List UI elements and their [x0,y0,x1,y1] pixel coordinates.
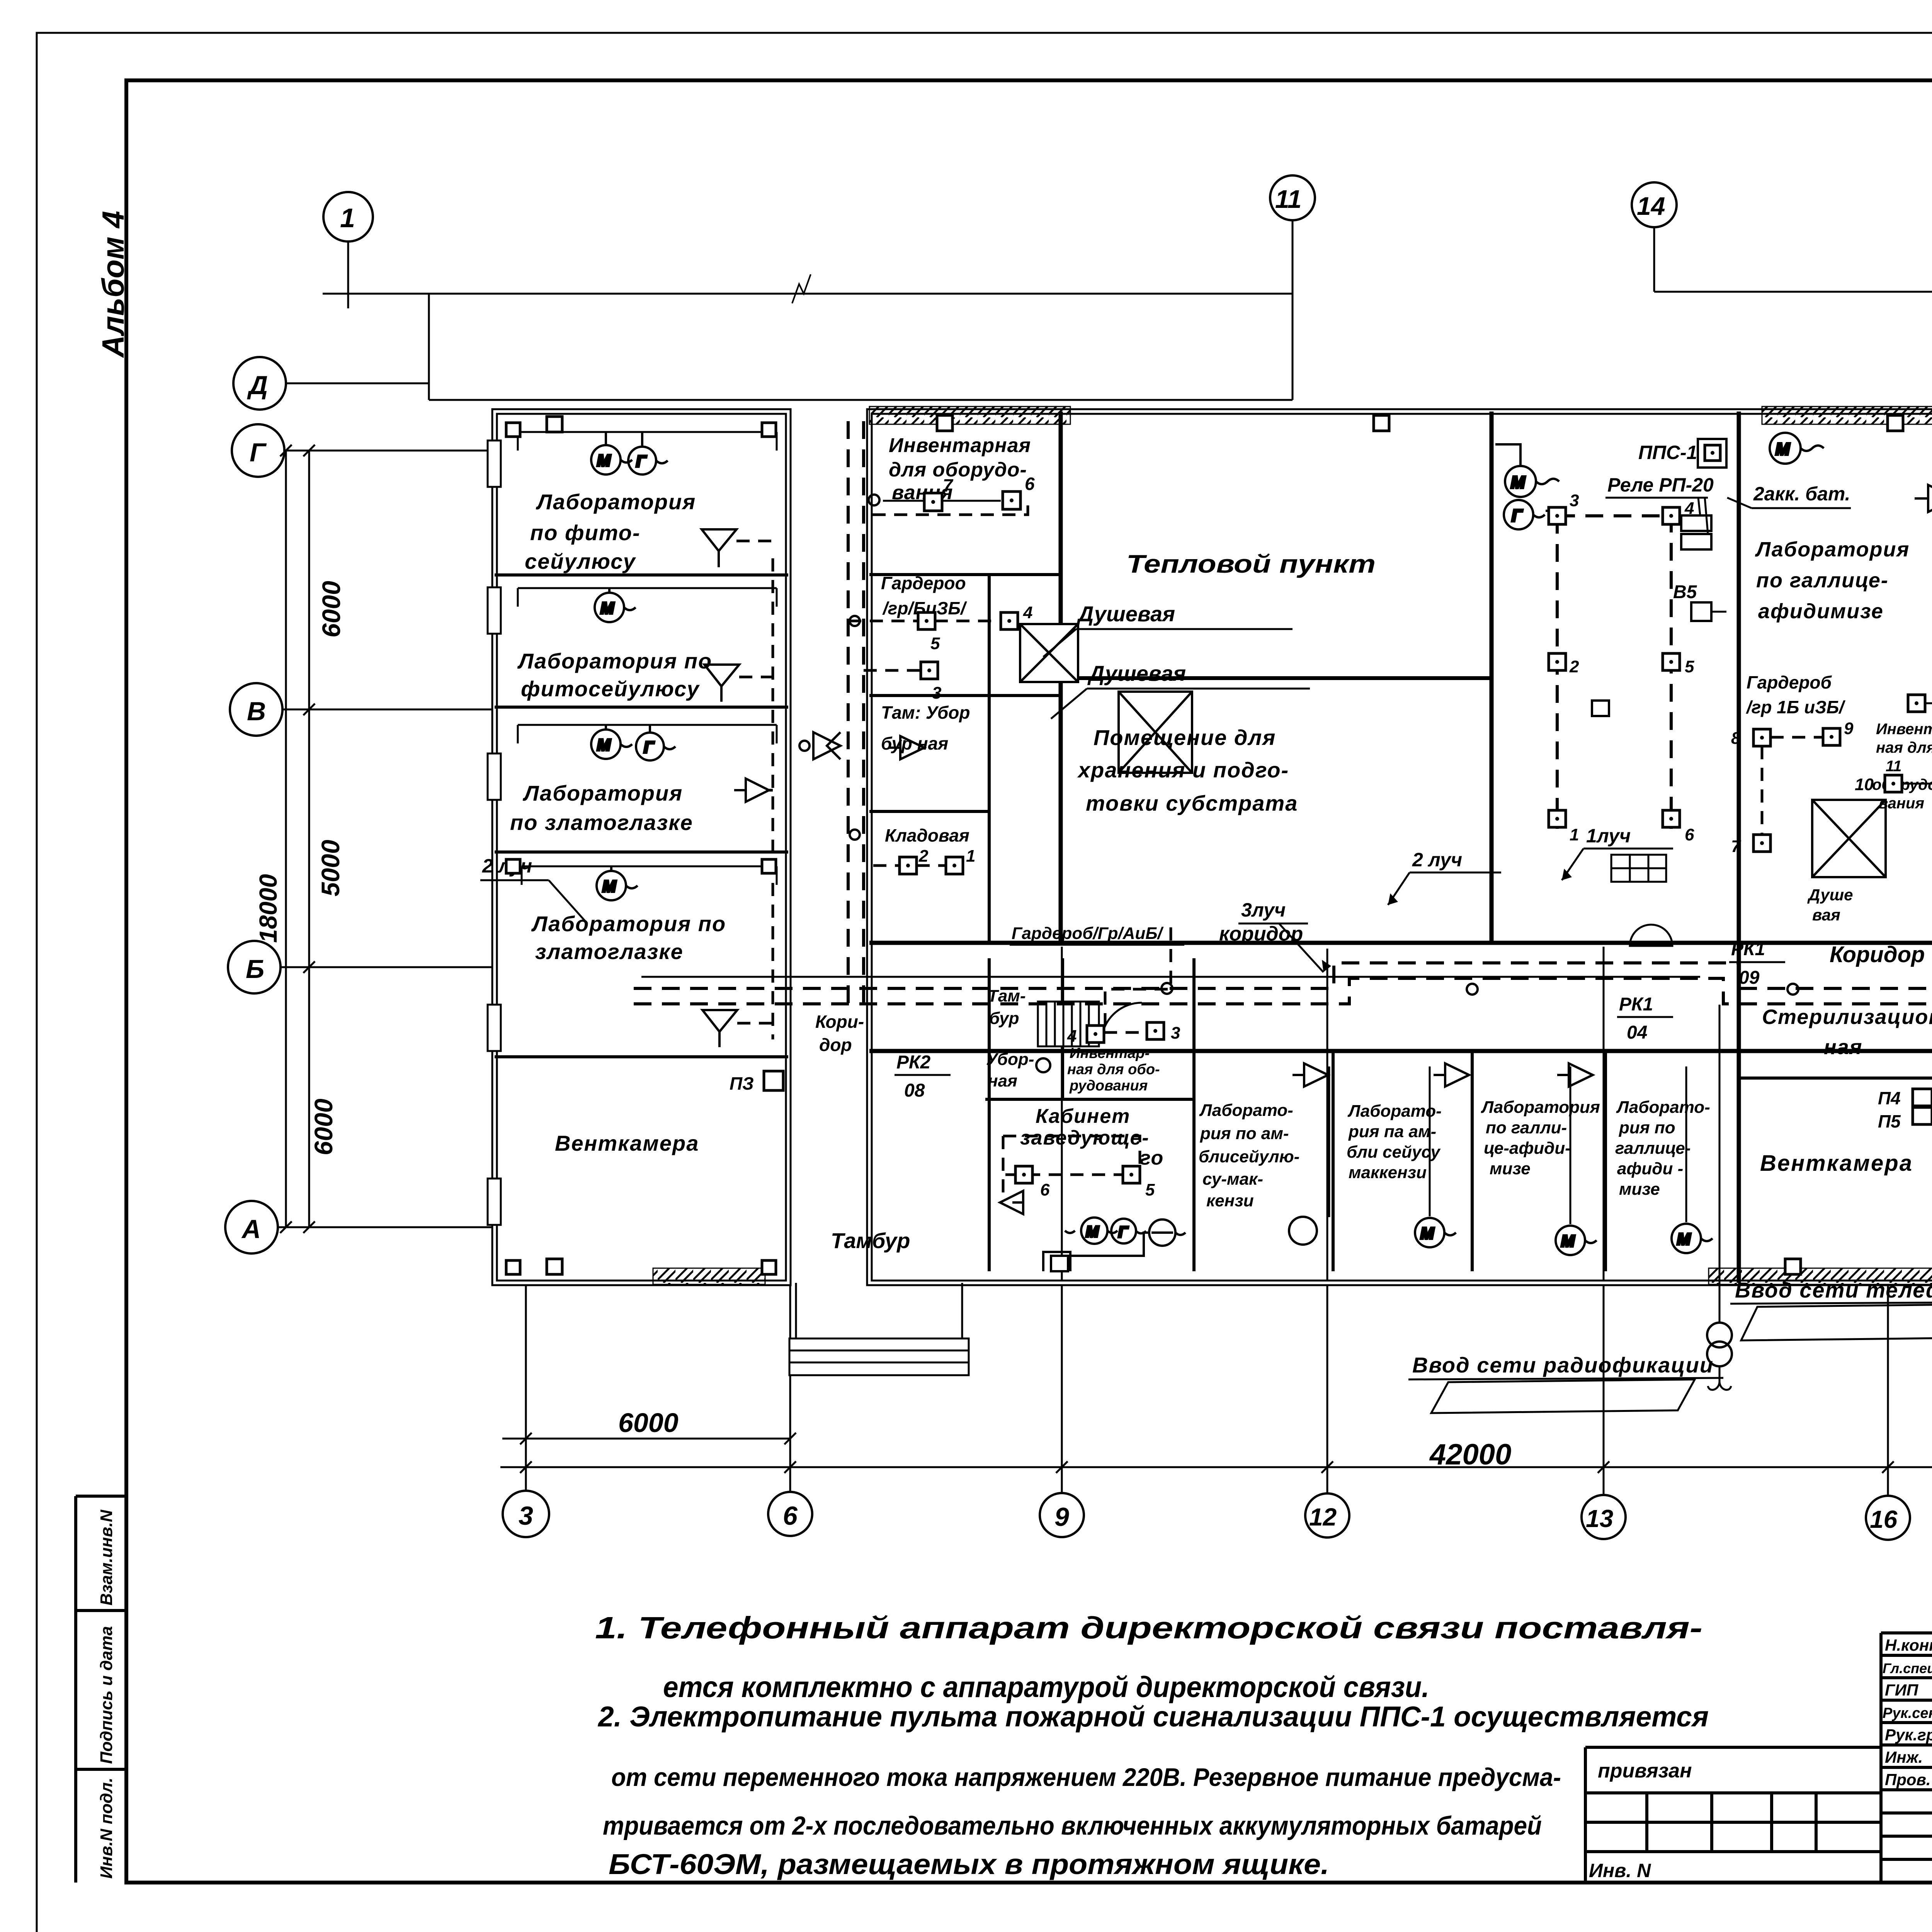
bottom axis droppers [526,947,1932,1499]
detectors P4 P5 [1878,1088,1932,1131]
svg-text:М: М [1511,473,1526,492]
glass symbol lab1 [702,529,736,567]
axis leader lines top [323,220,1932,400]
detector kabinet 6 [1015,1166,1050,1199]
svg-text:2акк. бат.: 2акк. бат. [1753,483,1850,505]
svg-text:М: М [1086,1223,1099,1240]
svg-text:Душевая: Душевая [1087,661,1186,685]
privyazan table [1585,1747,1881,1883]
svg-text:бур: бур [989,1009,1019,1028]
svg-text:Лаборатория: Лаборатория [522,781,683,805]
svg-text:по галли-: по галли- [1486,1118,1567,1137]
svg-text:Венткамера: Венткамера [1760,1151,1913,1176]
glass symbol lab2 [704,665,739,702]
axis circle 11 [1270,175,1315,220]
svg-text:1: 1 [340,203,355,233]
telefonization entry line [1719,1005,1721,1323]
svg-text:мизе: мизе [1619,1180,1660,1199]
speakers labs row [1293,1063,1593,1087]
bottom dimension line 42000 [500,1461,1932,1473]
svg-text:фитосейулюсу: фитосейулюсу [521,677,700,701]
ceiling line lab zlato1 [518,725,777,743]
riser left gap 1 [847,421,850,1004]
room lab gallitse top [1755,538,1910,623]
svg-text:сейулюсу: сейулюсу [525,549,636,573]
window hatches top wall [869,406,1932,424]
svg-text:Ввод сети радиофикации: Ввод сети радиофикации [1412,1353,1714,1377]
svg-text:коридор: коридор [1219,923,1303,945]
small box teplovoy center [1592,701,1609,716]
axis circle 9 [1040,1493,1084,1537]
window hatches bottom wall [653,1268,1932,1284]
margin stamp column [76,1496,126,1883]
ceiling line lab fito2 [518,588,777,607]
svg-text:М: М [1677,1230,1691,1248]
svg-text:Гл.спец.отд: Гл.спец.отд [1883,1660,1932,1676]
svg-text:по златоглазке: по златоглазке [510,810,693,835]
motor M loop room [1495,444,1559,497]
axis circle Д [233,357,286,410]
small boxes top wall main [547,415,1932,1274]
svg-text:Г: Г [1512,506,1523,525]
svg-text:5: 5 [1145,1180,1155,1199]
svg-text:афидимизе: афидимизе [1758,600,1884,623]
motor M lab zlato2 [597,866,638,900]
label garderob corridor [1010,924,1184,945]
svg-text:Душе: Душе [1807,886,1853,904]
sub dimension 6000 left [502,1433,796,1444]
svg-text:М: М [600,599,614,617]
svg-text:/гр 1Б иЗБ/: /гр 1Б иЗБ/ [1746,697,1845,717]
svg-text:Д: Д [247,371,268,400]
svg-text:5000: 5000 [316,840,345,896]
svg-text:тривается от 2-х последовател: тривается от 2-х последовательно включен… [603,1811,1542,1840]
axis circle 13 [1582,1495,1626,1539]
svg-text:Тамбур: Тамбур [831,1228,910,1253]
dashed between mid dets [1104,927,1171,1032]
svg-text:9: 9 [1054,1502,1069,1532]
svg-text:Коридор: Коридор [1830,942,1925,967]
svg-text:1: 1 [966,847,975,866]
svg-text:1. Телефонный аппарат директ: 1. Телефонный аппарат директорской связи… [595,1611,1702,1645]
svg-text:Альбом 4: Альбом 4 [96,211,130,358]
ceiling line lab zlato2 [522,866,777,885]
wall contact squares left wing [506,423,776,1274]
svg-text:Инв.N подл.: Инв.N подл. [97,1777,116,1879]
svg-text:бли сейусу: бли сейусу [1347,1143,1441,1162]
svg-text:Ввод сети телефонизации: Ввод сети телефонизации [1735,1278,1932,1302]
svg-text:6000: 6000 [309,1099,338,1155]
room inventar right [1872,721,1932,812]
svg-text:Лаборато-: Лаборато- [1347,1102,1442,1121]
svg-text:5: 5 [1685,657,1694,676]
svg-text:42000: 42000 [1429,1438,1511,1471]
label RK1/09 [1729,939,1785,988]
svg-text:3: 3 [1570,491,1579,510]
svg-text:Кладовая: Кладовая [885,825,969,845]
svg-text:Инвентар-: Инвентар- [1070,1045,1150,1061]
svg-text:для оборудо-: для оборудо- [889,459,1027,481]
svg-text:М: М [1561,1232,1575,1250]
svg-text:08: 08 [904,1080,925,1101]
windows left outer wall [488,440,501,1225]
svg-text:10: 10 [1855,775,1874,794]
svg-text:Подпись и дата: Подпись и дата [97,1626,116,1764]
svg-text:ная: ная [1824,1036,1862,1059]
room inventarnaya top [889,434,1031,504]
loop detector 2 [1549,653,1579,676]
svg-text:Лаборатория: Лаборатория [1481,1098,1600,1117]
svg-text:Лаборатория: Лаборатория [1755,538,1910,561]
svg-text:галлице-: галлице- [1615,1139,1690,1158]
svg-text:Лаборатория по: Лаборатория по [531,912,726,936]
loop detector 1 [1549,810,1579,844]
svg-text:Взам.инв.N: Взам.инв.N [97,1509,116,1605]
room lab ambl 1 [1199,1101,1299,1210]
parallelogram radiofication [1431,1379,1695,1413]
svg-text:РК1: РК1 [1619,994,1653,1015]
axis circle Б [228,941,281,993]
svg-text:14: 14 [1637,192,1665,220]
svg-text:Гардероб: Гардероб [1747,672,1832,692]
svg-text:ная для: ная для [1876,739,1932,756]
axis circle В [230,683,282,736]
motor G lab zlato1 [636,725,675,760]
svg-text:1: 1 [1570,825,1579,844]
svg-text:маккензи: маккензи [1349,1163,1427,1182]
kabinet speaker [1000,1191,1023,1214]
branch inventarnaya top [883,500,1001,502]
svg-text:11: 11 [1886,758,1902,775]
label 1 luch [1562,825,1673,880]
motor G lab fito1 [628,432,668,474]
room lab gall 2 [1615,1098,1710,1199]
axis leader lines left [278,383,495,1227]
left dimension chains [280,445,315,1233]
loop detector 6 [1663,810,1694,844]
svg-text:Н.контр.: Н.контр. [1885,1636,1932,1654]
svg-text:Кори-: Кори- [815,1012,864,1032]
svg-text:Убор-: Убор- [986,1050,1034,1069]
dashed between 8 and 9 [1762,737,1823,835]
svg-text:2. Электропитание пульта пожа: 2. Электропитание пульта пожарной сигнал… [597,1701,1709,1733]
motor M lab zlato1 [591,725,632,759]
svg-text:А: А [241,1214,261,1244]
svg-text:товки субстрата: товки субстрата [1086,791,1298,815]
svg-text:12: 12 [1309,1503,1337,1531]
svg-text:РК1: РК1 [1731,939,1765,959]
svg-text:рия по: рия по [1619,1118,1675,1137]
entrance porch left [789,1283,969,1375]
svg-text:Инвентар-: Инвентар- [1876,721,1932,738]
axis circle 14 [1632,182,1677,227]
wc circle ubor mid [1036,1058,1050,1072]
svg-text:М: М [1420,1224,1434,1242]
svg-text:привязан: привязан [1598,1760,1692,1782]
svg-text:8: 8 [1731,729,1741,748]
label RK2/08 [895,1052,951,1101]
svg-text:2: 2 [1569,657,1579,676]
svg-text:ется комплектно с аппаратур: ется комплектно с аппаратурой директорск… [663,1671,1429,1704]
svg-text:афиди -: афиди - [1617,1159,1683,1178]
ceiling line lab fito1 [518,432,777,451]
svg-text:Инж.: Инж. [1885,1748,1923,1766]
detector 11 inventar right [1908,695,1932,723]
svg-text:РК2: РК2 [896,1052,931,1073]
detector P3 [730,1071,783,1094]
detector 4 garderob [1001,603,1032,629]
detector 2 kladovaya main [900,847,929,874]
motor M lab fito2 [595,588,636,622]
axis circle А [225,1201,278,1253]
svg-text:Г: Г [1118,1224,1129,1241]
motor G loop room [1504,500,1549,529]
axis circle 3 [503,1491,549,1537]
svg-text:су-мак-: су-мак- [1202,1170,1263,1189]
branch kladovaya main row [873,864,954,867]
svg-text:це-афиди-: це-афиди- [1484,1139,1571,1158]
detector 9 garderob right [1823,719,1854,745]
motor trio kabinet [1043,1218,1185,1271]
label 2 akk bat [1727,483,1851,508]
detector 5 garderob [918,612,940,653]
svg-text:3луч: 3луч [1241,899,1286,921]
valve symbol left gap [799,732,840,759]
svg-text:М: М [597,736,611,754]
corridor solid cable [641,976,1700,978]
svg-text:6: 6 [1685,825,1694,844]
door arc corridor [1101,1003,1142,1043]
detector 1 kladovaya main [946,847,975,874]
svg-text:мизе: мизе [1490,1159,1531,1178]
svg-text:Гардероб/Гр/АиБ/: Гардероб/Гр/АиБ/ [1012,924,1164,943]
main block outer wall [869,412,1932,1283]
detector 7 top main [924,475,954,511]
svg-text:Реле РП-20: Реле РП-20 [1607,474,1714,496]
corridor cable run 1 [634,963,1932,988]
motor M gallitse top [1770,433,1824,464]
signature table texts [1883,1636,1932,1789]
detector 3 kladovaya [921,662,941,702]
svg-text:ная: ная [988,1071,1017,1090]
svg-text:Душевая: Душевая [1077,602,1175,626]
svg-text:Инв. N: Инв. N [1589,1860,1651,1881]
svg-text:Рук.гр.: Рук.гр. [1885,1726,1932,1744]
svg-text:Г: Г [250,438,267,467]
svg-text:Рук.сект.: Рук.сект. [1883,1705,1932,1721]
svg-text:по фито-: по фито- [530,520,641,545]
svg-text:6000: 6000 [618,1408,679,1438]
label dushevaya 2 [1051,661,1310,719]
svg-text:6000: 6000 [317,581,345,638]
left wing partition walls [495,575,788,1057]
detector 10 inventar right [1855,765,1932,794]
svg-text:6: 6 [783,1501,798,1531]
svg-text:Г: Г [636,452,647,470]
branch garderob dets [848,620,1001,622]
branch kladovaya det3 [864,669,939,672]
svg-text:В5: В5 [1673,582,1697,602]
corridor cable run 2 [634,978,1932,1004]
main block partition walls vertical [989,412,1932,1283]
label 2 luch [1388,849,1501,905]
svg-text:Лаборато-: Лаборато- [1616,1098,1710,1117]
contact circle inventarnaya [869,495,879,505]
svg-text:1луч: 1луч [1586,825,1631,847]
label 3 luch [1238,899,1331,972]
svg-text:по галлице-: по галлице- [1756,569,1889,592]
svg-text:ная для обо-: ная для обо- [1067,1061,1160,1078]
axis circle 1 [323,192,373,241]
detector 8 garderob right [1731,729,1770,748]
loop detector 3 [1549,491,1579,524]
loop detector 5 [1663,653,1694,676]
svg-text:Венткамера: Венткамера [555,1131,699,1155]
svg-text:хранения и подго-: хранения и подго- [1077,758,1289,782]
room lab ambl 2 [1347,1102,1442,1182]
svg-text:блисейулю-: блисейулю- [1199,1147,1299,1166]
svg-text:ПЗ: ПЗ [730,1073,754,1094]
svg-text:П4: П4 [1878,1088,1901,1108]
axis circle 12 [1305,1493,1349,1537]
detector kabinet 5 [1123,1166,1155,1199]
svg-text:Лаборато-: Лаборато- [1199,1101,1293,1120]
svg-text:П5: П5 [1878,1111,1901,1131]
svg-text:Кабинет: Кабинет [1036,1105,1130,1128]
circle contacts on corridor [850,574,1932,995]
svg-text:рия па ам-: рия па ам- [1348,1122,1436,1141]
svg-text:Тепловой пункт: Тепловой пункт [1126,549,1376,578]
svg-text:го: го [1140,1147,1164,1169]
parallelogram telefonization [1741,1304,1932,1340]
svg-text:вая: вая [1812,906,1840,924]
left wing outer wall [495,412,788,1283]
svg-text:заведующе-: заведующе- [1020,1127,1150,1149]
svg-text:Лаборатория по: Лаборатория по [517,649,712,673]
svg-text:3: 3 [932,684,941,702]
detector mid 4 [1067,1026,1104,1046]
svg-text:5: 5 [930,634,940,653]
svg-text:БСТ-60ЭМ, размещаемых в прот: БСТ-60ЭМ, размещаемых в протяжном ящике. [609,1848,1329,1880]
svg-text:вания: вания [1879,795,1924,812]
box B5 [1673,582,1726,621]
svg-text:3: 3 [519,1501,533,1531]
svg-text:Помещение для: Помещение для [1094,725,1276,750]
svg-text:4: 4 [1067,1027,1077,1046]
svg-text:златоглазке: златоглазке [535,939,684,964]
loop detector 4 [1663,499,1694,524]
svg-text:11: 11 [1275,185,1302,213]
glass symbol zlato2 [702,1010,737,1047]
svg-text:09: 09 [1739,968,1760,988]
svg-text:ППС-1: ППС-1 [1638,442,1697,463]
svg-text:Г: Г [644,738,655,756]
signature table [1881,1633,1932,1883]
svg-text:дор: дор [819,1035,852,1055]
svg-text:3: 3 [1171,1024,1180,1043]
svg-text:Гардероо: Гардероо [881,573,966,593]
svg-text:рия по ам-: рия по ам- [1200,1124,1289,1143]
speaker gallitse top [1915,485,1932,512]
speaker lab zlato1 [734,779,769,802]
room lab gall 1 [1481,1098,1600,1178]
axis circle Г [232,424,284,477]
svg-text:7: 7 [1731,837,1742,856]
motors labs row [1289,1217,1713,1255]
dashed branches left wing rooms [736,541,773,1023]
detector 6 top main [1003,474,1035,509]
detector 7 garderob right [1731,835,1770,856]
label RK1/04 [1617,994,1673,1043]
svg-text:6: 6 [1025,474,1035,494]
svg-text:М: М [1776,440,1790,459]
label vvod telefonizatsii [1730,1278,1932,1304]
svg-text:Стерилизацион-: Стерилизацион- [1762,1005,1932,1029]
riser inside left wing [772,558,774,1039]
main block partition walls horizontal [869,412,1932,1140]
vertical cable drops labs [1329,1066,1686,1224]
svg-text:Там: Убор: Там: Убор [881,702,970,723]
svg-text:13: 13 [1586,1505,1613,1532]
svg-text:2 луч: 2 луч [1412,849,1462,871]
label 2 luch left [480,855,587,923]
room pomeschenie substrata [1077,725,1298,815]
speaker corridor left [889,736,924,759]
svg-text:В: В [247,697,266,726]
svg-text:ГИП: ГИП [1885,1681,1918,1699]
svg-text:М: М [597,451,611,469]
svg-text:7: 7 [943,475,954,495]
svg-text:кензи: кензи [1206,1191,1254,1210]
battery block loop room [1611,855,1666,882]
label dushevaya 1 [1043,602,1293,657]
fire loop teplovoy punkt [1557,516,1671,829]
room kabinet [1020,1105,1164,1169]
svg-text:Б: Б [246,954,264,984]
transformer symbol [1707,1323,1732,1366]
svg-text:Инвентарная: Инвентарная [889,434,1031,457]
motor M lab fito1 [591,432,632,474]
kabinet loop [1003,1136,1140,1194]
stairs block [1038,1002,1099,1046]
detector mid 3 [1147,1022,1180,1043]
axis circle 16 [1866,1496,1910,1540]
svg-text:2: 2 [918,847,929,866]
door dome corridor junction [1630,925,1672,946]
svg-text:Лаборатория: Лаборатория [536,490,696,514]
svg-text:копировал: копировал [1900,1927,1932,1932]
svg-text:18000: 18000 [254,874,282,943]
riser left gap 2 [862,421,865,1004]
svg-text:04: 04 [1627,1022,1647,1043]
shower cabin x-box 1 [1020,624,1078,682]
PPS-1 panel [1605,439,1726,549]
svg-text:от сети переменного тока напр: от сети переменного тока напряжением 220… [611,1763,1561,1791]
axis circle 6 [768,1492,812,1536]
svg-text:9: 9 [1844,719,1854,738]
svg-text:4: 4 [1023,603,1032,622]
svg-text:6: 6 [1040,1180,1050,1199]
room inventar mid [1067,1045,1160,1094]
svg-text:рудования: рудования [1069,1078,1148,1094]
svg-text:М: М [602,877,616,895]
shower cabin x-box 2 [1119,692,1192,773]
svg-text:16: 16 [1870,1505,1898,1533]
label vvod radiofikatsii [1408,1353,1723,1379]
svg-text:Пров.: Пров. [1885,1770,1931,1789]
shower cabin x-box gard right [1812,800,1886,877]
